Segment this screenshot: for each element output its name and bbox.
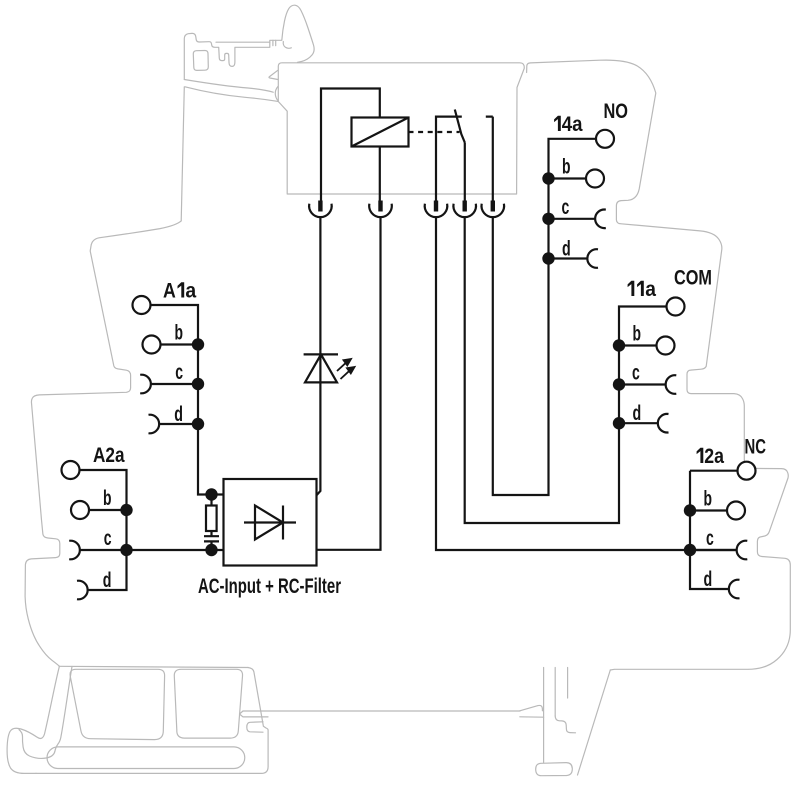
label 12a xyxy=(697,448,704,463)
terminal A2a b xyxy=(71,501,89,519)
wire capacitor to c node xyxy=(210,541,212,550)
foot slot xyxy=(47,747,245,769)
diode cathode bar xyxy=(282,506,284,540)
foot cutout 2 xyxy=(174,669,242,738)
node 12a c xyxy=(684,544,696,556)
diode axis xyxy=(244,521,296,523)
node A1a c xyxy=(192,378,204,390)
socket 5 pin xyxy=(491,201,495,212)
wire A1a bus to RC box xyxy=(151,305,224,495)
label 14a xyxy=(554,116,561,131)
wire socket4 to 11a bus xyxy=(465,217,667,523)
socket 1 pin xyxy=(318,201,322,212)
wire junction to resistor xyxy=(210,495,212,506)
wire A1a b xyxy=(161,343,199,345)
LED arrow 1 xyxy=(337,359,351,371)
terminal A1a d arc xyxy=(149,415,160,434)
svg-text:d: d xyxy=(633,402,642,425)
terminal 11a c arc xyxy=(666,375,677,394)
wire 11a b xyxy=(619,344,657,346)
svg-text:b: b xyxy=(175,322,184,345)
clip knuckle xyxy=(283,42,291,49)
wedge2 near box corner xyxy=(275,87,278,101)
node A1a b xyxy=(192,338,204,350)
svg-text:COM: COM xyxy=(674,267,712,290)
terminal 12a a xyxy=(738,462,756,480)
wire 11a d xyxy=(619,422,658,424)
svg-text:a: a xyxy=(645,278,656,301)
diode triangle xyxy=(255,506,283,540)
switch lever xyxy=(455,110,465,143)
terminal 11a a xyxy=(667,298,685,316)
wire A2a bus xyxy=(79,470,126,590)
socket 3 cup xyxy=(425,204,448,217)
capacitor C1 plates xyxy=(204,536,219,541)
wire A2a c to RC box xyxy=(80,549,224,551)
node A2a b xyxy=(120,504,132,516)
wire A2a b xyxy=(89,509,127,511)
foot left leg inner into hook pocket xyxy=(19,667,72,759)
socket 3 pin xyxy=(434,201,438,212)
svg-text:c: c xyxy=(175,361,183,384)
foot top edge xyxy=(59,666,248,667)
svg-text:NC: NC xyxy=(745,436,767,459)
label 11a xyxy=(628,281,644,296)
foot bottom edge xyxy=(36,668,268,774)
svg-text:c: c xyxy=(706,527,714,550)
socket 2 pin xyxy=(378,201,382,212)
node 14a b xyxy=(542,172,554,184)
terminal 14a d arc xyxy=(587,249,598,268)
wire 12a a xyxy=(690,470,738,472)
terminal 14a a xyxy=(596,130,614,148)
housing left profile A1a block to A2a block to foot xyxy=(25,221,181,666)
terminal 11a d arc xyxy=(658,414,669,433)
svg-text:NO: NO xyxy=(604,100,629,123)
svg-text:b: b xyxy=(103,487,112,510)
node 12a b xyxy=(684,504,696,516)
wire socket2 to RC box right xyxy=(317,217,381,550)
terminal A1a c arc xyxy=(140,375,151,394)
wire A1a d xyxy=(159,423,198,425)
LED arrow 2 xyxy=(341,367,355,379)
terminal A1a a xyxy=(133,296,151,314)
clip bar top rail xyxy=(216,41,270,43)
wedge near box corner xyxy=(269,70,278,79)
terminal 12a b xyxy=(727,502,745,520)
wire 14a d xyxy=(549,257,588,259)
node 14a d xyxy=(542,252,554,264)
centre clip columns xyxy=(544,668,568,763)
wire resistor to capacitor xyxy=(210,531,212,536)
svg-text:2a: 2a xyxy=(704,445,724,468)
terminal A2a a xyxy=(62,461,80,479)
clip square hole xyxy=(193,50,208,70)
terminal A1a b xyxy=(143,336,161,354)
terminal 12a d arc xyxy=(729,580,740,599)
terminal 14a b xyxy=(586,170,604,188)
svg-text:d: d xyxy=(562,238,571,261)
socket 2 cup xyxy=(369,204,392,217)
housing right profile: top lobe, 11a block, 12a block, bottom xyxy=(527,60,791,670)
terminal 12a c arc xyxy=(737,541,748,560)
wire 12a b xyxy=(690,509,727,511)
relay compartment box xyxy=(278,63,524,194)
foot right catch nub xyxy=(247,722,263,732)
wire relay coil loop xyxy=(321,89,380,201)
housing top-left release clip outer contour xyxy=(184,5,314,79)
svg-text:AC-Input + RC-Filter: AC-Input + RC-Filter xyxy=(198,575,341,598)
DIN rail top edge xyxy=(243,710,520,712)
terminal 11a b xyxy=(657,337,675,355)
terminal 14a c arc xyxy=(595,210,606,229)
wire 11a c xyxy=(619,383,666,385)
socket 4 cup xyxy=(453,204,476,217)
node RC top xyxy=(205,488,217,500)
node 11a c xyxy=(613,378,625,390)
wire coil bottom pin xyxy=(379,147,381,201)
svg-text:A2a: A2a xyxy=(93,444,125,467)
relay coil K1 xyxy=(352,118,409,147)
LED D1 cathode bar xyxy=(304,353,338,355)
centre clip zigzag xyxy=(555,716,575,733)
svg-text:b: b xyxy=(633,323,642,346)
svg-text:d: d xyxy=(103,569,112,592)
wire common pole xyxy=(464,143,466,201)
svg-text:c: c xyxy=(562,196,570,219)
rail end wedge at centre clip xyxy=(520,705,544,717)
resistor R1 xyxy=(206,506,217,532)
node 11a b xyxy=(613,339,625,351)
housing neck upper arc xyxy=(184,80,273,93)
svg-text:b: b xyxy=(704,488,713,511)
DIN rail lip xyxy=(240,711,269,717)
wire socket1 to LED to RC box xyxy=(317,217,321,495)
wire 12a c right xyxy=(690,549,737,551)
svg-text:d: d xyxy=(704,568,713,591)
terminal A2a d arc xyxy=(77,581,88,600)
svg-text:d: d xyxy=(174,403,183,426)
dashed actuation link xyxy=(409,131,460,133)
svg-text:c: c xyxy=(632,362,640,385)
terminal A2a c arc xyxy=(69,541,80,560)
wire A1a c xyxy=(151,383,198,385)
foot left leg outer into DIN hook xyxy=(7,666,59,773)
centre clip bottom tip xyxy=(536,763,573,776)
svg-text:b: b xyxy=(562,156,571,179)
centre clip slant edge xyxy=(578,670,611,775)
terminal circles and arcs xyxy=(62,130,756,520)
node A2a c xyxy=(120,544,132,556)
svg-text:a: a xyxy=(185,280,196,303)
socket 5 cup xyxy=(482,204,505,217)
foot cutout 1 xyxy=(70,669,165,739)
node RC bottom xyxy=(205,544,217,556)
node 14a c xyxy=(542,213,554,225)
wire socket5 to 14a bus xyxy=(493,139,596,495)
svg-text:4a: 4a xyxy=(562,113,583,136)
svg-text:A: A xyxy=(163,280,176,303)
svg-text:c: c xyxy=(104,527,112,550)
coil diagonal xyxy=(352,118,409,147)
wire 14a c xyxy=(549,218,596,220)
node A1a d xyxy=(192,418,204,430)
wire 14a b xyxy=(549,177,587,179)
clip grip ticks xyxy=(273,40,276,45)
RC filter box U2 xyxy=(224,479,317,566)
wire NO fixed contact xyxy=(486,117,493,201)
node 11a d xyxy=(613,417,625,429)
LED D1 triangle xyxy=(305,354,337,382)
socket 4 pin xyxy=(463,201,467,212)
wire socket3 to 12a c xyxy=(436,217,737,550)
housing left tower edge xyxy=(181,87,184,221)
socket 1 cup xyxy=(309,204,332,217)
housing neck lower arc xyxy=(185,87,278,102)
wire NC fixed contact xyxy=(436,117,462,201)
wire 12a bus xyxy=(690,471,729,589)
